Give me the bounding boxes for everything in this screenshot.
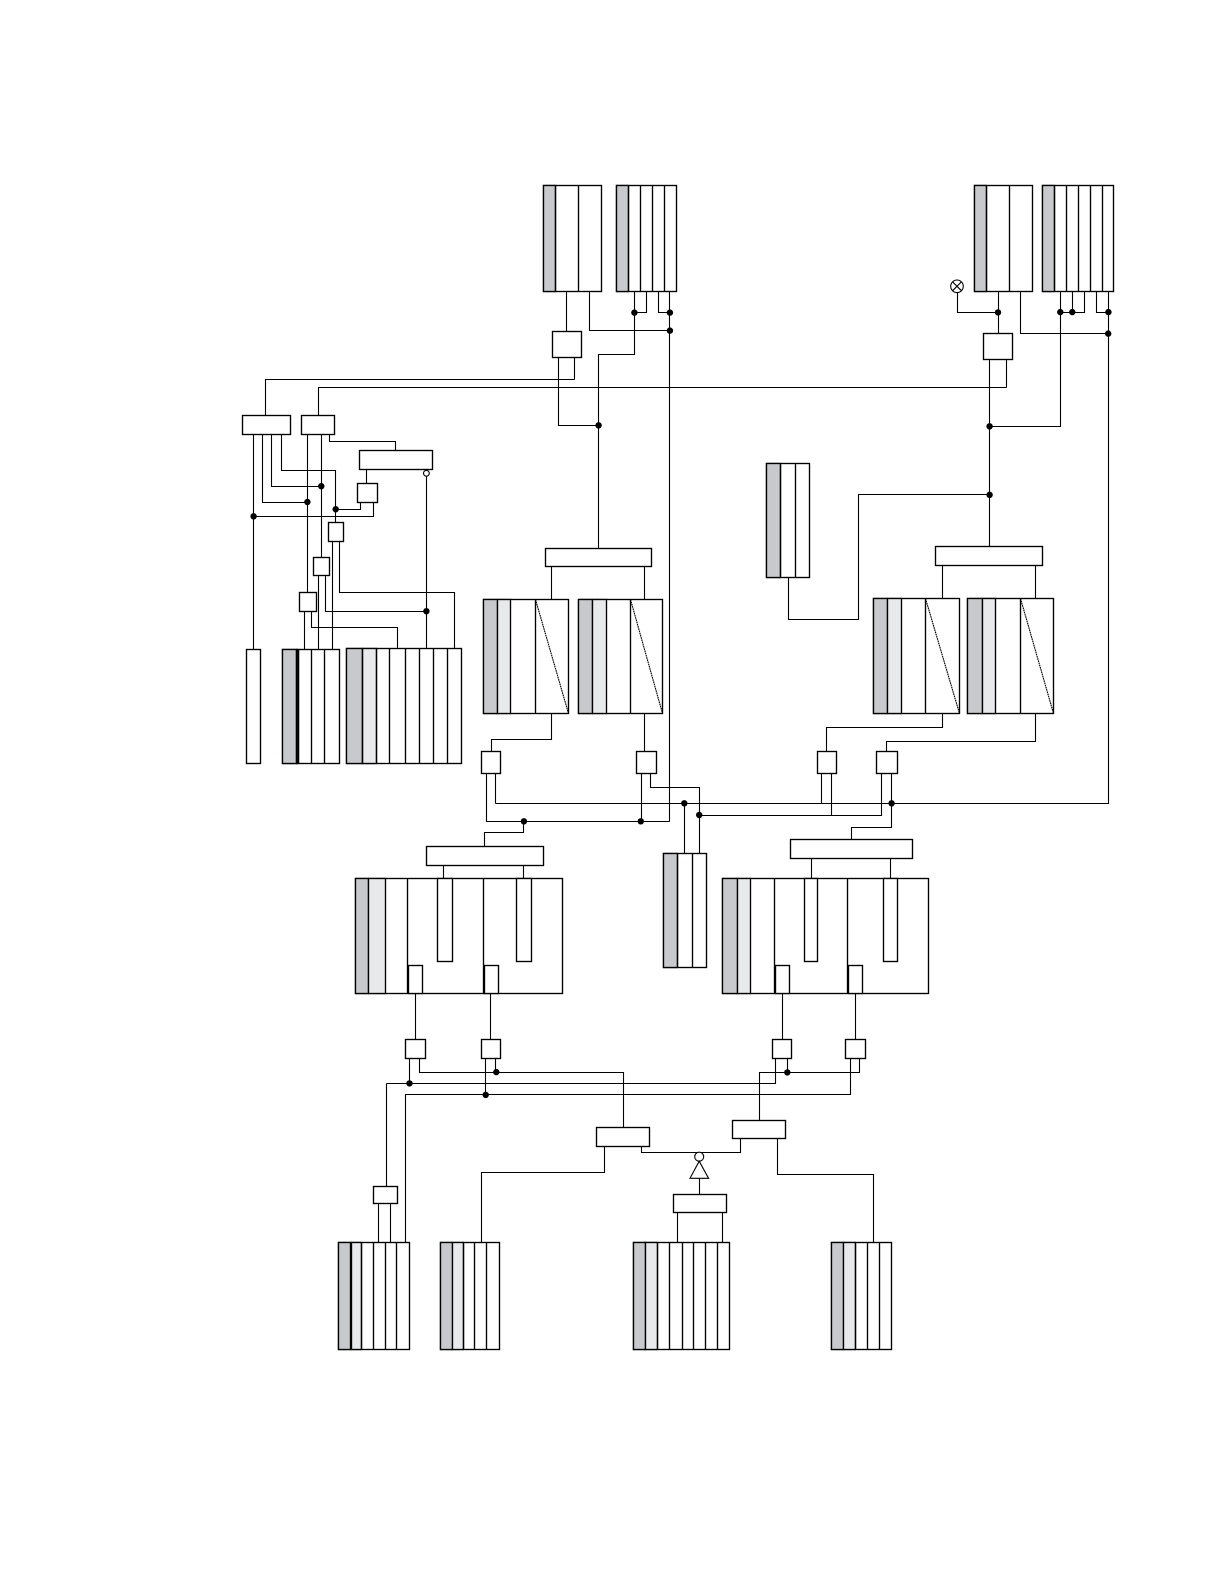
wire constant to B3 pin1 net bbox=[958, 293, 999, 313]
wire B2 pin4 long vertical net n3 bbox=[669, 292, 671, 822]
wire B3 pin2 to net n8 bbox=[1021, 292, 1109, 334]
buffer box V bbox=[637, 752, 657, 774]
wire N pin1 to block O bbox=[942, 566, 944, 599]
register block W bbox=[664, 854, 707, 968]
output block I bbox=[347, 649, 462, 764]
junction dot U1p2 bbox=[784, 1069, 790, 1075]
junction dot nB1 bbox=[304, 499, 310, 505]
mux bar R bbox=[427, 847, 544, 866]
logic box E bbox=[329, 523, 344, 542]
memory block O bbox=[874, 599, 960, 714]
wire T2 pin1 down bbox=[485, 1059, 487, 1095]
wire C bubble down to block I bbox=[426, 477, 428, 649]
wire C to box D bbox=[366, 470, 368, 484]
junction dot T2p2 bbox=[493, 1069, 499, 1075]
register block B3 bbox=[975, 186, 1033, 292]
wire L out to box V bbox=[644, 714, 646, 752]
junction dot n7a bbox=[1057, 309, 1063, 315]
buffer box U1 bbox=[773, 1040, 792, 1059]
junction dot n8c bbox=[681, 800, 687, 806]
wire B4 pin3 join bbox=[1061, 292, 1085, 313]
wire net n8 branch to W bbox=[684, 804, 686, 854]
wire net n15 to BP pin1 bbox=[700, 774, 882, 816]
wire V pin2 to block W and BP bbox=[651, 774, 700, 854]
junction dot FF2 net a bbox=[986, 423, 992, 429]
logic box D bbox=[358, 484, 378, 503]
register block B2 bbox=[617, 186, 677, 292]
wire D pin1 left to net nE bbox=[336, 503, 361, 510]
FF1 clock stub bbox=[574, 358, 576, 380]
wire D pin2 left to net nA1 bbox=[254, 503, 374, 517]
mux bar CC2 bbox=[733, 1121, 786, 1139]
wire E pin2 to block I c8 bbox=[340, 542, 455, 649]
output bar P1 bbox=[247, 650, 261, 764]
inverter triangle bbox=[690, 1161, 709, 1178]
FF2 Q pin wire down to mux N bbox=[989, 360, 991, 547]
mux bar CC1 bbox=[597, 1128, 650, 1147]
junction dot FF2 net b bbox=[986, 492, 992, 498]
wire P out to box BP bbox=[887, 714, 1036, 752]
wire B2 pin1 down-left to mux J bbox=[599, 292, 635, 549]
register block M bbox=[767, 464, 810, 578]
wire CC2 pin2 to BB4 bbox=[778, 1139, 874, 1243]
wire B pin1 down to box G bbox=[307, 435, 309, 593]
memory block L bbox=[579, 600, 663, 714]
wire Y pin2 to Z slot2 bbox=[890, 859, 892, 879]
wire CC1 pin1 to BB2 bbox=[482, 1147, 605, 1243]
junction dot n8b bbox=[1105, 330, 1111, 336]
memory block P bbox=[968, 599, 1054, 714]
junction dot nB2 bbox=[318, 483, 324, 489]
wire BO pin1 to net n8 bbox=[821, 774, 823, 804]
mux bar J bbox=[546, 549, 652, 567]
net n3 bus horizontal bbox=[487, 821, 670, 823]
wire Z out2 to box U2 bbox=[855, 994, 857, 1040]
mux bar Y bbox=[791, 840, 913, 859]
wire B2 pin3 join pin4 bbox=[659, 292, 670, 313]
wire n3 branch to mux R bbox=[485, 822, 524, 847]
wire B1 pin2 to net n3 bbox=[590, 292, 670, 331]
wire Q pin1 to net n3 bus bbox=[487, 774, 524, 822]
wire A pin1 down to bar bbox=[253, 435, 255, 650]
wire inverter to bar DD bbox=[699, 1179, 701, 1195]
wire T1 pin2 to CC1 bbox=[420, 1059, 624, 1128]
wire R pin2 to S slot2 bbox=[523, 866, 525, 879]
wire A pin2 to net nB1 bbox=[263, 435, 308, 503]
mux bar N bbox=[936, 547, 1043, 566]
buffer box Q bbox=[482, 752, 501, 774]
wire N pin2 to block P bbox=[1035, 566, 1037, 599]
output block BB4 bbox=[832, 1243, 892, 1350]
wire S out1 to box T1 bbox=[415, 994, 417, 1040]
wire K out to box Q bbox=[492, 714, 552, 752]
buffer box BP bbox=[877, 752, 898, 774]
wire M pin to FF2 net bbox=[789, 495, 990, 620]
wire B3 pin1 to FF2 bbox=[998, 292, 1000, 334]
decoder box A bbox=[243, 416, 291, 435]
buffer box U2 bbox=[846, 1040, 866, 1059]
output block BB1 bbox=[339, 1243, 410, 1350]
wire Q pin2 start long net n8 bbox=[495, 774, 497, 804]
wire R pin1 to S slot1 bbox=[443, 866, 445, 879]
wire T2 pin2 join bbox=[495, 1059, 497, 1073]
wire S out2 to box T2 bbox=[490, 994, 492, 1040]
wire DD pin1 to BB3 bbox=[677, 1213, 679, 1243]
wire E pin1 down to block H bbox=[332, 542, 334, 650]
wire T1 pin1 down bbox=[409, 1059, 411, 1084]
buffer box AA bbox=[374, 1187, 398, 1204]
junction dot n8a bbox=[1105, 309, 1111, 315]
wire BP pin2 to mux Y bbox=[852, 774, 892, 840]
wire A pin4 to box E bbox=[282, 435, 336, 523]
output block BB3 bbox=[634, 1243, 730, 1350]
wire F pin2 to bubble net bbox=[326, 576, 427, 612]
junction dot T1p1 bbox=[406, 1080, 412, 1086]
buffer box T1 bbox=[406, 1040, 426, 1059]
wire Y pin1 to Z slot1 bbox=[811, 859, 813, 879]
junction dot n15 bbox=[696, 812, 702, 818]
output block BB2 bbox=[441, 1243, 500, 1350]
junction dot n3c bbox=[521, 818, 527, 824]
junction dot n3a bbox=[667, 309, 673, 315]
output block H bbox=[283, 650, 340, 764]
junction dot bubble net bbox=[423, 608, 429, 614]
wire J pin2 to block L bbox=[644, 567, 646, 600]
wire V pin1 to net n3 bus bbox=[641, 774, 643, 822]
junction dot n7b bbox=[1069, 309, 1075, 315]
wire AA pin1 to BB1 bbox=[378, 1204, 380, 1243]
logic box G bbox=[300, 593, 317, 612]
wire O out to box BO bbox=[827, 714, 943, 752]
junction dot n3d bbox=[638, 818, 644, 824]
inverter bubble bbox=[695, 1152, 704, 1161]
wire B1 pin1 to FF1 bbox=[566, 292, 568, 332]
wire U2 pin2 to CC2 bbox=[760, 1059, 860, 1121]
buffer box T2 bbox=[482, 1040, 501, 1059]
register file Z bbox=[723, 879, 929, 994]
logic box F bbox=[314, 558, 330, 576]
wire2 box B top to FF2 stub bbox=[319, 388, 1007, 416]
wire B4 pin5 long right vertical net n8 bbox=[496, 292, 1109, 804]
wire U1 pin2 join bbox=[787, 1059, 789, 1073]
logic box C bbox=[360, 451, 433, 470]
constant symbol (circled X) bbox=[951, 280, 964, 293]
wire B2 pin2 join pin1 bbox=[635, 292, 647, 313]
wire B4 pin1 down-left to FF2 net bbox=[990, 292, 1061, 427]
wire1 box A top to FF1 stub bbox=[266, 380, 575, 416]
junction dot B3p1 bbox=[995, 309, 1001, 315]
register file S bbox=[356, 879, 563, 994]
wire F pin1 down to block H bbox=[318, 576, 320, 650]
register block B1 bbox=[544, 186, 602, 292]
wire U1 pin1 bus left bbox=[387, 1059, 776, 1084]
wire CC1 pin2 to CC2 pin1 (inverter net) bbox=[642, 1139, 741, 1153]
wire B p3 to box C bbox=[330, 435, 396, 451]
junction dot n8d bbox=[888, 800, 894, 806]
wire AA pin2 to BB1 bbox=[390, 1204, 392, 1243]
junction dot n3b bbox=[667, 327, 673, 333]
wire B4 pin2 join bbox=[1072, 292, 1074, 313]
register block B4 bbox=[1043, 186, 1114, 292]
FF1 Q pin wire to net n2 bbox=[559, 358, 599, 426]
wire AA feed bbox=[386, 1084, 388, 1187]
wire Z out1 to box U1 bbox=[782, 994, 784, 1040]
buffer box BO bbox=[818, 752, 837, 774]
flip-flop FF2 bbox=[984, 334, 1013, 360]
memory block K bbox=[484, 600, 569, 714]
wire U2 pin1 bus to BB1 bbox=[406, 1059, 851, 1243]
wire A pin3 to net nB2 bbox=[272, 435, 322, 487]
inverter bubble under C bbox=[424, 470, 430, 476]
wire B pin2 down to box F bbox=[321, 435, 323, 558]
junction dot n2b bbox=[595, 422, 601, 428]
junction dot nA1 bbox=[250, 513, 256, 519]
wire DD pin2 to BB3 bbox=[722, 1213, 724, 1243]
wire B4 pin4 join bbox=[1097, 292, 1109, 313]
wire J pin1 to block K bbox=[551, 567, 553, 600]
flip-flop FF1 bbox=[553, 332, 582, 358]
decoder box B bbox=[302, 416, 335, 435]
FF2 clock stub bbox=[1006, 360, 1008, 388]
wire G pin2 to block I c4 bbox=[312, 612, 398, 649]
junction dot T2p1 bbox=[483, 1092, 489, 1098]
junction dot n2a bbox=[631, 309, 637, 315]
mux bar DD bbox=[674, 1195, 727, 1213]
junction dot nE bbox=[333, 506, 339, 512]
wire BO pin2 to net n15 bbox=[831, 774, 833, 816]
wire G pin1 down to block H bbox=[304, 612, 306, 650]
